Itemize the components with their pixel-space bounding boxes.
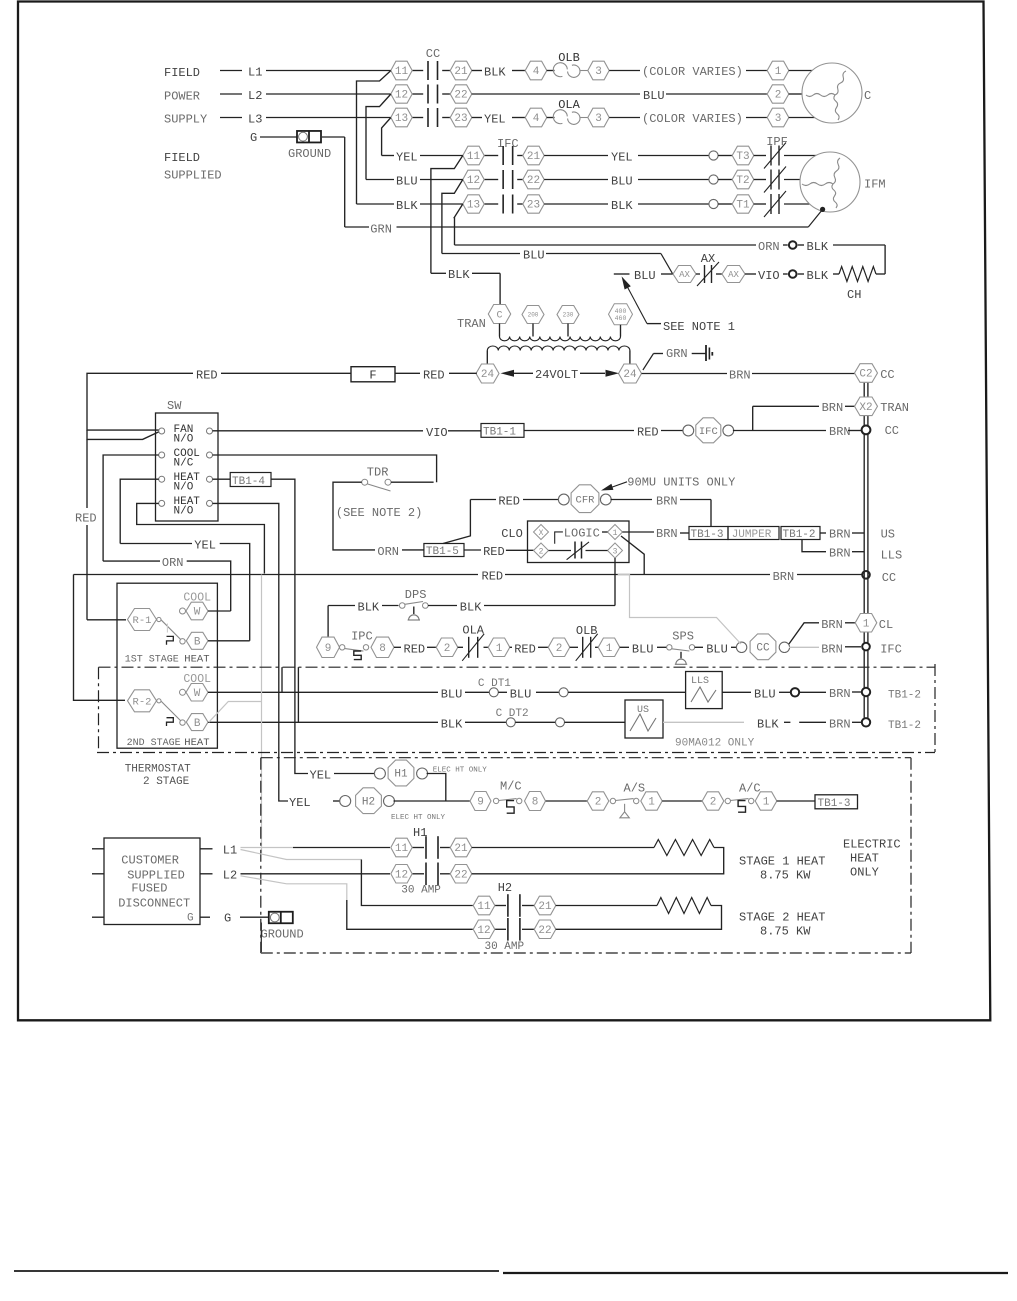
svg-text:N/O: N/O (174, 506, 194, 518)
svg-text:X: X (539, 529, 544, 538)
svg-text:YEL: YEL (396, 151, 418, 165)
svg-text:RED: RED (482, 570, 504, 584)
svg-text:FIELD: FIELD (164, 66, 200, 80)
svg-text:N/O: N/O (174, 433, 194, 445)
svg-text:C: C (496, 310, 502, 321)
svg-text:TB1-2: TB1-2 (888, 690, 921, 702)
svg-text:BLU: BLU (441, 687, 463, 701)
svg-text:23: 23 (527, 200, 540, 212)
svg-text:CC: CC (426, 47, 440, 61)
svg-text:22: 22 (454, 870, 467, 882)
svg-text:BLK: BLK (484, 66, 506, 80)
svg-text:1: 1 (496, 643, 503, 655)
svg-text:ORN: ORN (377, 545, 399, 559)
svg-text:11: 11 (477, 901, 491, 913)
svg-text:BLK: BLK (358, 601, 380, 615)
svg-text:B: B (194, 637, 201, 649)
svg-text:C2: C2 (859, 369, 872, 381)
svg-text:TRAN: TRAN (457, 317, 486, 331)
svg-text:GRN: GRN (666, 347, 688, 361)
svg-text:1: 1 (648, 797, 655, 809)
svg-text:ELEC HT ONLY: ELEC HT ONLY (391, 814, 446, 822)
svg-text:LLS: LLS (881, 549, 903, 563)
svg-text:8: 8 (379, 643, 386, 655)
svg-text:11: 11 (395, 843, 409, 855)
svg-text:3: 3 (595, 113, 602, 125)
svg-text:YEL: YEL (611, 151, 633, 165)
svg-text:SPS: SPS (672, 630, 694, 644)
svg-text:1: 1 (606, 643, 613, 655)
svg-text:LLS: LLS (691, 676, 709, 687)
svg-text:230: 230 (563, 312, 574, 319)
svg-text:RED: RED (404, 642, 426, 656)
svg-text:SUPPLY: SUPPLY (164, 113, 207, 127)
svg-text:BLU: BLU (706, 642, 728, 656)
svg-text:BRN: BRN (656, 495, 678, 509)
svg-text:22: 22 (527, 175, 540, 187)
svg-text:DPS: DPS (405, 588, 427, 602)
svg-text:1: 1 (863, 619, 870, 631)
svg-text:C DT2: C DT2 (496, 708, 529, 720)
svg-text:2: 2 (595, 797, 602, 809)
svg-text:G: G (224, 912, 231, 926)
svg-text:12: 12 (395, 870, 408, 882)
svg-text:9: 9 (477, 797, 484, 809)
svg-text:BLU: BLU (634, 269, 656, 283)
svg-text:CH: CH (847, 288, 861, 302)
svg-text:22: 22 (454, 90, 467, 102)
svg-text:CC: CC (882, 571, 896, 585)
svg-text:1ST STAGE: 1ST STAGE (125, 655, 179, 666)
svg-text:BRN: BRN (829, 528, 851, 542)
svg-text:BLU: BLU (754, 687, 776, 701)
svg-text:24: 24 (481, 369, 495, 381)
svg-text:HEAT: HEAT (184, 737, 209, 749)
svg-text:N/C: N/C (174, 457, 194, 469)
svg-text:OLB: OLB (576, 624, 598, 638)
svg-text:3: 3 (595, 66, 602, 78)
svg-text:R-2: R-2 (133, 696, 152, 708)
svg-text:(SEE NOTE 2): (SEE NOTE 2) (336, 506, 422, 520)
svg-text:12: 12 (477, 925, 490, 937)
svg-text:BLU: BLU (632, 642, 654, 656)
svg-text:BLK: BLK (396, 199, 418, 213)
svg-text:RED: RED (423, 368, 445, 382)
svg-text:IFM: IFM (864, 178, 886, 192)
svg-text:A/S: A/S (624, 782, 646, 796)
svg-text:CL: CL (879, 618, 893, 632)
svg-text:IPC: IPC (351, 630, 373, 644)
svg-text:2: 2 (775, 90, 782, 102)
svg-text:RED: RED (483, 545, 505, 559)
svg-text:BLU: BLU (396, 175, 418, 189)
svg-text:4: 4 (533, 113, 540, 125)
svg-text:GROUND: GROUND (288, 147, 331, 161)
svg-text:30 AMP: 30 AMP (401, 885, 441, 897)
svg-text:G: G (250, 131, 257, 145)
svg-text:90MU UNITS ONLY: 90MU UNITS ONLY (627, 476, 735, 490)
svg-text:CC: CC (756, 643, 770, 655)
svg-text:21: 21 (527, 151, 541, 163)
svg-text:STAGE 1 HEAT: STAGE 1 HEAT (739, 855, 825, 869)
svg-text:F: F (369, 369, 376, 383)
svg-text:BLU: BLU (611, 175, 633, 189)
svg-text:11: 11 (467, 151, 481, 163)
svg-text:TDR: TDR (367, 466, 389, 480)
svg-text:G: G (187, 913, 194, 925)
svg-text:IFC: IFC (497, 137, 519, 151)
svg-text:BLK: BLK (448, 268, 470, 282)
svg-text:YEL: YEL (310, 769, 332, 783)
svg-text:VIO: VIO (758, 269, 780, 283)
svg-text:IFC: IFC (880, 642, 902, 656)
svg-text:8.75 KW: 8.75 KW (760, 868, 811, 882)
svg-text:W: W (194, 607, 201, 619)
svg-text:1: 1 (613, 529, 618, 538)
svg-text:200: 200 (528, 312, 539, 319)
svg-text:ELECTRIC: ELECTRIC (843, 838, 901, 852)
svg-text:1: 1 (763, 797, 770, 809)
svg-text:T2: T2 (736, 175, 749, 187)
svg-text:BRN: BRN (829, 687, 851, 701)
svg-text:90MA012 ONLY: 90MA012 ONLY (675, 738, 755, 750)
svg-text:BRN: BRN (729, 369, 751, 383)
svg-text:GROUND: GROUND (261, 928, 304, 942)
svg-text:BRN: BRN (829, 717, 851, 731)
svg-text:4: 4 (533, 66, 540, 78)
svg-text:23: 23 (454, 113, 467, 125)
svg-text:C DT1: C DT1 (478, 678, 511, 690)
svg-text:HEAT: HEAT (850, 852, 879, 866)
svg-text:TB1-2: TB1-2 (783, 529, 816, 541)
svg-text:STAGE 2 HEAT: STAGE 2 HEAT (739, 911, 825, 925)
svg-text:L1: L1 (223, 843, 237, 857)
svg-text:RED: RED (637, 426, 659, 440)
svg-text:DISCONNECT: DISCONNECT (118, 897, 190, 911)
svg-text:13: 13 (467, 200, 480, 212)
svg-text:BLK: BLK (807, 269, 829, 283)
svg-text:BLK: BLK (441, 717, 463, 731)
svg-text:2: 2 (444, 643, 451, 655)
svg-text:RED: RED (75, 512, 97, 526)
svg-text:SEE NOTE 1: SEE NOTE 1 (663, 320, 735, 334)
svg-text:BRN: BRN (773, 570, 795, 584)
svg-text:SUPPLIED: SUPPLIED (127, 869, 185, 883)
svg-text:400: 400 (615, 308, 627, 315)
svg-text:22: 22 (538, 925, 551, 937)
svg-text:SW: SW (167, 399, 182, 413)
svg-text:BLK: BLK (611, 199, 633, 213)
svg-text:ORN: ORN (758, 240, 780, 254)
svg-text:12: 12 (467, 175, 480, 187)
svg-text:GRN: GRN (370, 223, 392, 237)
svg-text:CC: CC (885, 424, 899, 438)
svg-text:H2: H2 (362, 796, 375, 808)
svg-text:L1: L1 (248, 66, 262, 80)
svg-text:TB1-3: TB1-3 (691, 529, 724, 541)
svg-text:L3: L3 (248, 113, 262, 127)
svg-text:BLU: BLU (523, 249, 545, 263)
svg-text:24: 24 (623, 369, 637, 381)
svg-text:YEL: YEL (289, 796, 311, 810)
svg-text:(COLOR VARIES): (COLOR VARIES) (642, 112, 743, 126)
svg-text:US: US (881, 528, 895, 542)
svg-text:BLK: BLK (757, 717, 779, 731)
svg-text:T1: T1 (736, 200, 750, 212)
svg-text:21: 21 (538, 901, 552, 913)
svg-text:HEAT: HEAT (184, 654, 209, 666)
svg-text:21: 21 (454, 66, 468, 78)
svg-text:2 STAGE: 2 STAGE (143, 776, 190, 788)
svg-text:CC: CC (880, 368, 894, 382)
svg-text:1: 1 (775, 66, 782, 78)
svg-text:BRN: BRN (822, 401, 844, 415)
svg-text:BLU: BLU (643, 89, 665, 103)
svg-text:YEL: YEL (484, 113, 506, 127)
svg-text:9: 9 (325, 643, 332, 655)
svg-text:RED: RED (498, 494, 520, 508)
svg-text:IPF: IPF (766, 135, 788, 149)
svg-text:ONLY: ONLY (850, 866, 879, 880)
svg-text:TB1-4: TB1-4 (232, 476, 265, 488)
svg-text:BRN: BRN (821, 618, 843, 632)
svg-text:A/C: A/C (739, 782, 761, 796)
svg-text:VIO: VIO (426, 426, 448, 440)
svg-text:W: W (194, 688, 201, 700)
svg-text:POWER: POWER (164, 90, 200, 104)
svg-text:(COLOR VARIES): (COLOR VARIES) (642, 65, 743, 79)
svg-text:X2: X2 (859, 402, 872, 414)
svg-text:CFR: CFR (576, 494, 596, 506)
svg-text:YEL: YEL (194, 539, 216, 553)
svg-text:13: 13 (395, 113, 408, 125)
svg-text:12: 12 (395, 90, 408, 102)
svg-text:FIELD: FIELD (164, 151, 200, 165)
svg-text:3: 3 (613, 547, 618, 556)
svg-text:BLK: BLK (807, 240, 829, 254)
svg-text:B: B (194, 718, 201, 730)
svg-text:TRAN: TRAN (880, 401, 909, 415)
svg-text:2: 2 (556, 643, 563, 655)
svg-text:8: 8 (532, 797, 539, 809)
svg-text:11: 11 (395, 66, 409, 78)
svg-text:FUSED: FUSED (131, 882, 167, 896)
svg-text:BRN: BRN (821, 642, 843, 656)
svg-text:TB1-3: TB1-3 (818, 798, 851, 810)
svg-text:C: C (864, 89, 871, 103)
svg-text:R-1: R-1 (133, 615, 152, 627)
svg-text:US: US (637, 705, 649, 716)
svg-text:ORN: ORN (162, 556, 184, 570)
svg-text:460: 460 (615, 315, 627, 322)
svg-text:N/O: N/O (174, 482, 194, 494)
svg-text:RED: RED (514, 642, 536, 656)
svg-text:TB1-2: TB1-2 (888, 720, 921, 732)
svg-text:2: 2 (539, 547, 544, 556)
svg-text:21: 21 (454, 843, 468, 855)
svg-text:JUMPER: JUMPER (732, 529, 772, 541)
svg-text:AX: AX (679, 270, 690, 280)
svg-text:CUSTOMER: CUSTOMER (121, 854, 179, 868)
svg-text:M/C: M/C (500, 780, 522, 794)
svg-text:H1: H1 (394, 769, 408, 781)
svg-text:L2: L2 (223, 868, 237, 882)
svg-text:IFC: IFC (699, 426, 718, 438)
svg-text:RED: RED (196, 368, 218, 382)
svg-text:BRN: BRN (829, 425, 851, 439)
svg-text:TB1-1: TB1-1 (483, 426, 516, 438)
svg-text:SUPPLIED: SUPPLIED (164, 169, 222, 183)
svg-text:OLA: OLA (462, 624, 484, 638)
svg-text:2: 2 (710, 797, 717, 809)
svg-text:H2: H2 (498, 881, 512, 895)
svg-text:AX: AX (728, 270, 739, 280)
svg-text:BLK: BLK (460, 601, 482, 615)
svg-text:L2: L2 (248, 89, 262, 103)
svg-text:BRN: BRN (829, 547, 851, 561)
svg-text:24VOLT: 24VOLT (535, 368, 578, 382)
svg-text:THERMOSTAT: THERMOSTAT (125, 764, 191, 776)
svg-text:T3: T3 (736, 151, 749, 163)
svg-text:3: 3 (775, 113, 782, 125)
svg-text:LOGIC: LOGIC (564, 527, 600, 541)
svg-text:2ND STAGE: 2ND STAGE (127, 738, 181, 749)
svg-text:30 AMP: 30 AMP (485, 941, 525, 953)
svg-text:8.75 KW: 8.75 KW (760, 924, 811, 938)
svg-text:CLO: CLO (501, 527, 523, 541)
svg-text:AX: AX (701, 252, 715, 266)
svg-text:BLU: BLU (510, 687, 532, 701)
svg-text:BRN: BRN (656, 527, 678, 541)
svg-text:TB1-5: TB1-5 (426, 546, 459, 558)
